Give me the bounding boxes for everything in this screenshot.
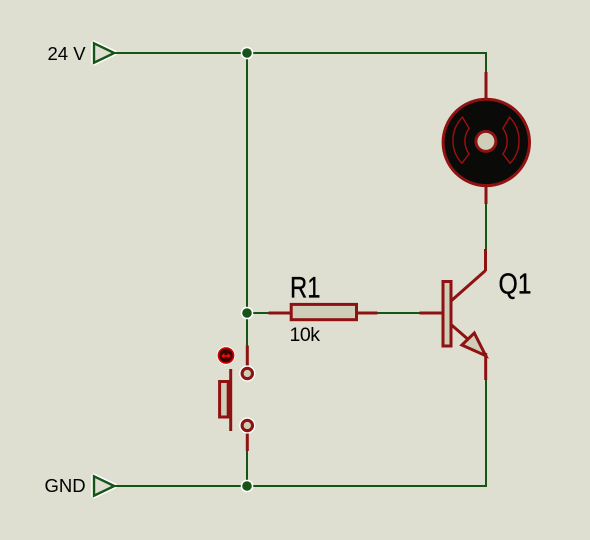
svg-text:R1: R1 <box>290 272 321 305</box>
button top pin <box>246 346 249 369</box>
actuator ring <box>217 346 235 364</box>
right brush arc <box>503 117 519 163</box>
shaft <box>476 131 496 151</box>
power terminal 24V <box>94 43 114 62</box>
motor top pin <box>485 72 488 99</box>
motor body <box>443 99 529 185</box>
collector diagonal <box>451 271 486 302</box>
ground terminal GND <box>94 476 114 495</box>
wire: button bottom pin to bottom rail <box>246 450 248 486</box>
base pin <box>420 312 443 315</box>
bottom contact <box>239 417 255 433</box>
plunger body <box>220 382 229 418</box>
push button SW <box>217 346 256 452</box>
emitter diagonal <box>451 325 470 342</box>
motor bottom pin <box>485 185 488 204</box>
wire: top rail from 24V terminal to motor column <box>114 52 487 54</box>
svg-text:10k: 10k <box>290 324 321 346</box>
actuator arrow <box>221 353 231 359</box>
top contact <box>239 365 255 381</box>
wire: motor column upper segment <box>485 53 487 73</box>
junction dot at bottom rail / button column <box>241 480 254 493</box>
emitter pin <box>484 353 487 380</box>
button bottom pin <box>246 431 249 451</box>
collector pin <box>484 249 487 271</box>
svg-text:Q1: Q1 <box>499 268 532 300</box>
left brush arc <box>453 117 469 163</box>
wire: left column from top junction to resistor junction <box>246 53 248 313</box>
junction dot at resistor node <box>241 307 254 320</box>
wire: resistor junction down to button top pin <box>246 313 248 346</box>
transistor Q1 <box>420 249 486 380</box>
motor M1 <box>443 72 529 204</box>
junction dot at top rail / left column <box>241 47 254 60</box>
base bar <box>443 282 451 347</box>
wire: motor bottom to collector pin <box>485 203 487 249</box>
resistor R1 <box>269 304 378 319</box>
emitter arrowhead <box>462 333 486 356</box>
svg-text:GND: GND <box>45 475 86 496</box>
svg-text:24 V: 24 V <box>48 43 87 64</box>
wire: resistor junction to R1 left pin <box>247 312 269 314</box>
lever bar <box>229 369 232 431</box>
wire: R1 right pin to Q1 base pin <box>377 312 420 314</box>
wire: emitter column down to bottom rail <box>114 379 486 486</box>
